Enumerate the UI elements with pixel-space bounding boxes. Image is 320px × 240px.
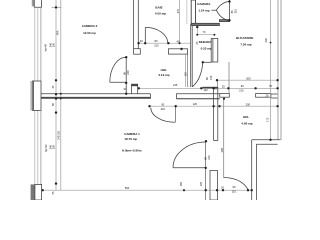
svg-text:3.19 mp: 3.19 mp [158,73,169,77]
svg-text:12.00 mp: 12.00 mp [83,31,96,35]
svg-text:200: 200 [246,102,251,106]
svg-text:4.00 mp: 4.00 mp [155,12,166,16]
svg-text:150: 150 [52,144,56,149]
svg-text:7.00 mp: 7.00 mp [240,43,251,47]
svg-text:210: 210 [207,155,211,160]
svg-text:210: 210 [161,107,166,111]
svg-text:CAMERA 1: CAMERA 1 [124,132,140,136]
svg-text:210: 210 [239,89,244,93]
svg-text:4.90 mp: 4.90 mp [241,121,252,125]
svg-text:210: 210 [209,75,213,80]
svg-text:245: 245 [173,83,178,87]
svg-text:110: 110 [232,190,237,194]
svg-text:560: 560 [125,186,130,190]
svg-text:1.24 mp: 1.24 mp [198,9,209,13]
svg-text:210: 210 [154,44,159,48]
svg-text:H.liber=2.60m: H.liber=2.60m [122,148,142,152]
svg-text:0.53 mp: 0.53 mp [201,46,212,50]
svg-text:210: 210 [234,8,238,13]
svg-text:18.76 mp: 18.76 mp [124,137,137,141]
svg-text:hp=90: hp=90 [44,144,48,152]
svg-text:BUCATARIE: BUCATARIE [236,36,253,40]
svg-text:165: 165 [179,181,183,186]
svg-text:230: 230 [264,38,268,43]
svg-text:150: 150 [52,42,56,47]
svg-text:120: 120 [203,88,208,92]
svg-text:210: 210 [126,70,130,75]
svg-text:370: 370 [176,8,180,13]
svg-text:120: 120 [193,102,198,106]
svg-text:120: 120 [184,72,188,77]
svg-text:105: 105 [220,147,224,152]
svg-text:400: 400 [56,30,60,35]
svg-text:BAIE: BAIE [155,5,162,9]
svg-text:200: 200 [246,76,251,80]
svg-text:HOL: HOL [161,68,168,72]
svg-text:CAMERA 2: CAMERA 2 [82,24,98,28]
svg-text:240/150: 240/150 [58,130,61,139]
svg-text:HOL: HOL [243,115,250,119]
svg-text:105: 105 [199,181,203,186]
svg-text:CAMARA: CAMARA [197,2,211,6]
svg-text:175: 175 [266,117,270,122]
svg-text:DEBARA: DEBARA [199,40,213,44]
svg-text:hp=90: hp=90 [44,43,48,51]
